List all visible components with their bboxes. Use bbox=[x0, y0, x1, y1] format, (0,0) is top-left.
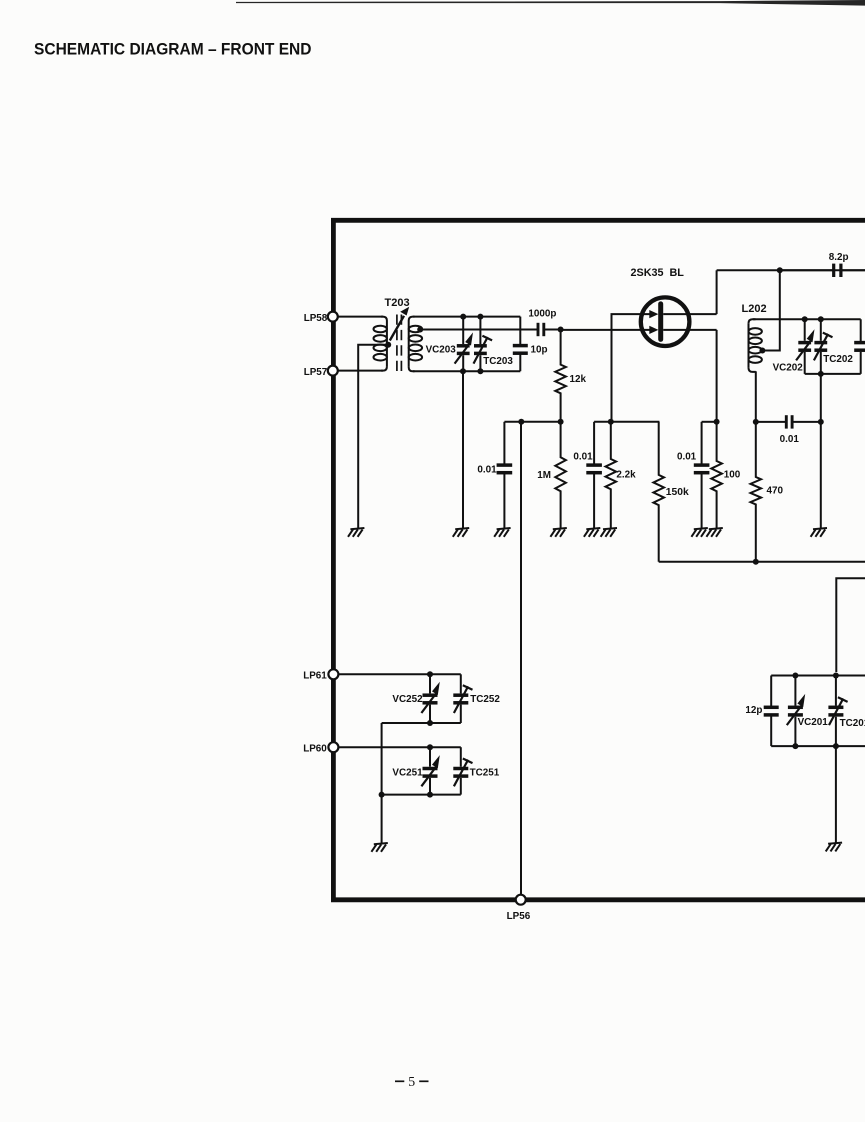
capacitor 0.01 group2 bbox=[586, 422, 602, 528]
variable capacitor VC202 bbox=[796, 319, 814, 374]
svg-text:LP56: LP56 bbox=[507, 911, 531, 922]
svg-text:5: 5 bbox=[408, 1074, 415, 1089]
wire LP61 rail bbox=[338, 673, 461, 675]
capacitor 0.01 coupling bbox=[756, 415, 821, 428]
svg-text:VC202: VC202 bbox=[773, 362, 804, 373]
terminal LP60 bbox=[328, 742, 338, 752]
trimmer capacitor TC251 bbox=[453, 747, 472, 794]
wire LP57 to T203 primary bottom bbox=[338, 370, 384, 372]
trimmer capacitor TC252 bbox=[453, 674, 472, 723]
terminal LP61 bbox=[328, 669, 338, 679]
node TC201 top / frame junction bbox=[833, 673, 839, 679]
node TC202 bottom bbox=[818, 371, 824, 377]
svg-text:2SK35 BL: 2SK35 BL bbox=[631, 267, 685, 279]
node VC251 bottom bbox=[427, 792, 433, 798]
wire T203 primary tap to ground bbox=[358, 345, 388, 528]
svg-text:0.01: 0.01 bbox=[477, 464, 497, 475]
resistor 150k bbox=[653, 422, 664, 562]
svg-text:100: 100 bbox=[724, 470, 741, 481]
transformer T203 tuning arrow bbox=[390, 316, 404, 341]
node gate1/2.2k junction bbox=[608, 419, 614, 425]
node VC201 top bbox=[792, 673, 798, 679]
transformer T203 secondary winding bbox=[409, 317, 422, 372]
node TC203 top bbox=[477, 314, 483, 320]
wire VC202 group bottom rail bbox=[805, 373, 861, 375]
svg-text:VC251: VC251 bbox=[392, 767, 423, 778]
svg-text:LP58: LP58 bbox=[304, 313, 328, 324]
wire tank bottom rail bbox=[413, 370, 520, 372]
page number dash left bbox=[395, 1080, 404, 1082]
node VC252 top bbox=[427, 671, 433, 677]
ground under T203 bbox=[348, 528, 364, 537]
resistor 470 bbox=[751, 422, 762, 562]
svg-text:12p: 12p bbox=[745, 705, 762, 716]
svg-text:1000p: 1000p bbox=[528, 308, 556, 319]
capacitor 0.01 group1 bbox=[497, 422, 513, 528]
wire drain rail to L202 tap bbox=[763, 270, 780, 350]
svg-text:TC201: TC201 bbox=[840, 718, 865, 729]
ground under 0.01 group2 bbox=[584, 528, 600, 537]
wire osc tank to ground bbox=[835, 746, 837, 843]
node T203 primary tap junction bbox=[385, 342, 391, 348]
node VC251 top bbox=[427, 744, 433, 750]
variable capacitor VC203 bbox=[455, 317, 473, 372]
wire osc tank top rail bbox=[771, 675, 865, 677]
terminal LP57 bbox=[328, 366, 338, 376]
svg-text:TC203: TC203 bbox=[483, 356, 513, 367]
wire VC203 to ground bbox=[462, 371, 464, 528]
transistor Q 2SK35 (FET) bbox=[641, 297, 717, 346]
variable capacitor VC251 bbox=[421, 747, 439, 794]
svg-text:VC252: VC252 bbox=[392, 694, 423, 705]
svg-text:SCHEMATIC DIAGRAM – FRONT END: SCHEMATIC DIAGRAM – FRONT END bbox=[34, 40, 312, 59]
wire long drop to LP56 bbox=[520, 422, 522, 895]
svg-text:LP57: LP57 bbox=[304, 367, 328, 378]
wire VC251 bottom rail bbox=[382, 794, 461, 796]
node source/100 junction bbox=[714, 419, 720, 425]
svg-text:LP60: LP60 bbox=[303, 744, 327, 755]
node VC203 top bbox=[460, 314, 466, 320]
wire VC252 bottom rail bbox=[382, 722, 461, 724]
node 12k/1M junction bbox=[558, 419, 564, 425]
svg-text:150k: 150k bbox=[666, 487, 689, 498]
wire group2 rail bbox=[594, 421, 659, 423]
svg-text:TC202: TC202 bbox=[823, 354, 853, 365]
capacitor 1000p bbox=[534, 323, 561, 336]
trimmer capacitor TC202 bbox=[814, 319, 833, 374]
main schematic frame border bbox=[333, 220, 865, 900]
transformer T203 core (dashed) bbox=[397, 315, 402, 372]
node link/rail junction bbox=[379, 792, 385, 798]
ground lower-left tank bbox=[371, 843, 387, 852]
svg-text:TC251: TC251 bbox=[470, 767, 500, 778]
svg-text:12k: 12k bbox=[570, 374, 587, 385]
wire group1 rail bbox=[504, 421, 560, 423]
coil L202 bbox=[749, 319, 762, 372]
wire LP60 rail bbox=[338, 746, 461, 748]
svg-text:10p: 10p bbox=[531, 345, 548, 356]
terminal LP58 bbox=[328, 312, 338, 322]
node group1 drop junction bbox=[518, 419, 524, 425]
svg-text:VC203: VC203 bbox=[426, 345, 457, 356]
wire L202 bottom lead bbox=[755, 371, 757, 422]
svg-text:LP61: LP61 bbox=[303, 671, 327, 682]
node VC202 top bbox=[802, 316, 808, 322]
variable capacitor VC252 bbox=[421, 674, 439, 723]
wire group3 rail bbox=[702, 421, 717, 423]
svg-text:470: 470 bbox=[767, 485, 784, 496]
wire lower tank to ground bbox=[381, 795, 383, 844]
ground under 0.01 group3 bbox=[691, 528, 707, 537]
wire L202 top rail to VC202 group bbox=[753, 318, 861, 320]
ground oscillator tank bbox=[826, 843, 842, 852]
ground under VC202/TC202 bbox=[811, 528, 827, 537]
wire LP58 to T203 primary top bbox=[338, 316, 384, 318]
oscillator section frame corner bbox=[836, 578, 865, 672]
wire AGC rail bbox=[659, 561, 865, 563]
node L202 tap bbox=[759, 348, 765, 354]
svg-text:TC252: TC252 bbox=[470, 694, 500, 705]
trimmer capacitor TC203 bbox=[474, 317, 493, 372]
page-top scan artifact line bbox=[236, 0, 865, 6]
svg-text:T203: T203 bbox=[385, 297, 410, 309]
node TC202 top bbox=[818, 316, 824, 322]
capacitor 12p bbox=[764, 676, 779, 747]
ground under 0.01 group1 bbox=[494, 528, 510, 537]
wire FET drain riser bbox=[716, 270, 718, 314]
wire FET source drop bbox=[716, 330, 718, 422]
resistor 12k bbox=[555, 330, 566, 422]
node TC201 bottom bbox=[833, 743, 839, 749]
capacitor (clipped at right edge) bbox=[860, 319, 862, 374]
trimmer capacitor TC201 bbox=[828, 676, 847, 747]
svg-text:0.01: 0.01 bbox=[780, 434, 800, 445]
wire drain top rail bbox=[717, 269, 865, 271]
resistor 1M bbox=[555, 422, 566, 528]
wire secondary tap to 1000p bbox=[420, 329, 534, 331]
capacitor 8.2p bbox=[780, 264, 865, 277]
node L202 lead / 0.01 junction bbox=[753, 419, 759, 425]
capacitor 0.01 group3 bbox=[694, 422, 710, 528]
page number dash right bbox=[419, 1080, 428, 1082]
capacitor 10p bbox=[513, 317, 528, 372]
node 1000p / 12k junction bbox=[558, 327, 564, 333]
ground under 2.2k bbox=[601, 528, 617, 537]
terminal LP56 bbox=[516, 895, 526, 905]
wire FET gate1 riser bbox=[612, 314, 650, 422]
svg-text:2.2k: 2.2k bbox=[616, 470, 636, 481]
node VC252 bottom bbox=[427, 720, 433, 726]
node VC201 bottom bbox=[792, 743, 798, 749]
svg-text:L202: L202 bbox=[742, 303, 767, 315]
ground under VC203 bbox=[453, 528, 469, 537]
svg-text:8.2p: 8.2p bbox=[829, 252, 849, 263]
node VC203 bottom bbox=[460, 368, 466, 374]
svg-text:VC201: VC201 bbox=[798, 717, 829, 728]
node TC202 drop / 0.01 junction bbox=[818, 419, 824, 425]
wire 1000p junction to FET gate2 bbox=[561, 329, 650, 331]
resistor 2.2k bbox=[606, 422, 617, 528]
transformer T203 primary winding bbox=[374, 317, 387, 371]
wire TC202 bottom to ground bbox=[820, 374, 822, 528]
node drain rail / L202 feed junction bbox=[777, 267, 783, 273]
ground under 1M bbox=[550, 528, 566, 537]
svg-text:0.01: 0.01 bbox=[573, 452, 593, 463]
wire link drop between tanks bbox=[381, 723, 383, 795]
node TC203 bottom bbox=[477, 368, 483, 374]
variable capacitor VC201 bbox=[787, 676, 805, 747]
wire tank top rail bbox=[413, 316, 520, 318]
wire osc tank bottom rail bbox=[771, 745, 865, 747]
resistor 100 bbox=[711, 422, 722, 528]
svg-text:1M: 1M bbox=[537, 470, 551, 481]
ground under 100 bbox=[706, 528, 722, 537]
node T203 secondary tap bbox=[417, 327, 423, 333]
node 470 to AGC rail bbox=[753, 559, 759, 565]
svg-text:0.01: 0.01 bbox=[677, 452, 697, 463]
